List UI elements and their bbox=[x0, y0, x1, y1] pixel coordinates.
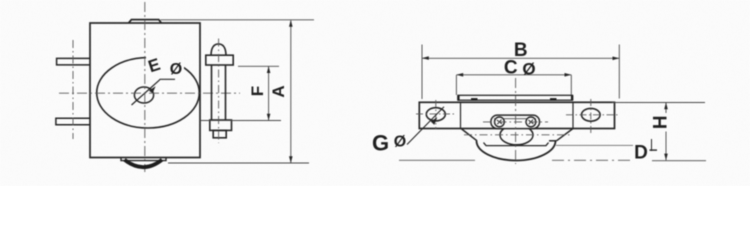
hub / axle E bbox=[134, 87, 153, 103]
chord extension to D bbox=[556, 144, 633, 146]
mounting plate bbox=[419, 102, 614, 128]
housing slope left bbox=[461, 129, 477, 141]
bolt locknut bbox=[213, 130, 226, 137]
axle centerline bbox=[464, 134, 570, 136]
H bottom extension bbox=[652, 160, 706, 162]
bottom nut/rivet bbox=[121, 158, 166, 161]
D tick bbox=[651, 139, 653, 151]
dim F arrows bbox=[267, 66, 271, 120]
strip tick left bbox=[471, 98, 478, 100]
bolt centerline bbox=[218, 39, 220, 144]
dim C line bbox=[456, 74, 571, 76]
left hole crosshair bbox=[416, 100, 456, 129]
dim A line bbox=[290, 20, 292, 162]
left upper tab bbox=[57, 58, 91, 65]
bracket body plate bbox=[90, 23, 200, 158]
leader arrowhead on hub bbox=[149, 86, 156, 93]
right ear hole bbox=[582, 108, 601, 121]
left ear hole G bbox=[426, 108, 445, 121]
dim C arrows bbox=[456, 73, 571, 77]
rail line dashed part bbox=[552, 159, 630, 161]
main vertical centerline bbox=[144, 2, 146, 172]
G leader arrowhead bbox=[431, 117, 438, 125]
bolt nut bbox=[210, 120, 232, 130]
axle strap bbox=[491, 115, 540, 129]
dim B arrows bbox=[422, 56, 619, 60]
tab centerline bbox=[72, 40, 74, 139]
rail line (wheel bottom reference, dash-dot) bbox=[399, 159, 475, 161]
axle hub boss bbox=[500, 125, 533, 145]
dim A extension bottom bbox=[168, 162, 309, 164]
main horizontal centerline bbox=[59, 92, 240, 94]
housing bottom right segment bbox=[549, 140, 557, 142]
dim H extension top bbox=[612, 102, 705, 104]
screw centerline bbox=[483, 121, 548, 123]
dim A extension top bbox=[161, 19, 315, 21]
wheel bottom dome bbox=[477, 141, 556, 161]
strip tick right bbox=[550, 98, 557, 100]
hub slot diagonal / leader through hub bbox=[132, 79, 176, 105]
wheel chord with hooks bbox=[484, 143, 549, 146]
G leader bbox=[407, 107, 444, 145]
D dash bbox=[650, 149, 658, 151]
label E background patch bbox=[146, 56, 184, 75]
label H background bbox=[659, 113, 674, 132]
dim C extensions bbox=[456, 75, 571, 95]
dim H arrows bbox=[664, 103, 668, 161]
housing slope right bbox=[557, 129, 574, 141]
strap inner line bbox=[494, 118, 536, 120]
bend line left bbox=[460, 102, 462, 128]
bolt dome head bbox=[211, 44, 226, 55]
bolt flange bbox=[206, 55, 233, 65]
left lower tab bbox=[56, 118, 91, 125]
dim F/plate extension bottom bbox=[200, 120, 281, 122]
right hole crosshair bbox=[566, 99, 618, 133]
dim B extensions bbox=[422, 45, 619, 100]
bend line right bbox=[572, 102, 574, 128]
vertical centerline bbox=[515, 78, 517, 164]
screw left bbox=[495, 117, 505, 127]
dim A arrows bbox=[289, 20, 293, 163]
wheel top edge strip bbox=[458, 95, 573, 100]
wheel (circle, view from side) bbox=[97, 58, 200, 128]
screw right slot bbox=[528, 120, 533, 125]
strip end cap right bbox=[571, 95, 573, 100]
dim H line bbox=[665, 103, 667, 161]
bottom nut bold arc bbox=[125, 160, 163, 167]
dim B line bbox=[422, 57, 619, 59]
screw left slot bbox=[497, 120, 502, 125]
dim F line bbox=[268, 66, 270, 120]
top tab bbox=[129, 20, 162, 23]
dim F extension top bbox=[238, 65, 279, 67]
bolt shank bbox=[212, 65, 226, 120]
screw right bbox=[526, 117, 536, 127]
strip end cap left bbox=[457, 95, 459, 100]
